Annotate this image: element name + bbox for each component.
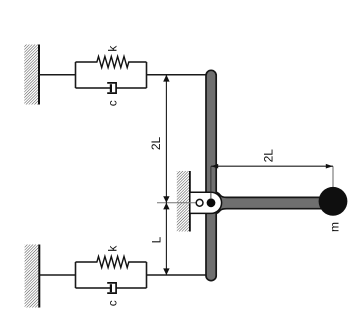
svg-text:c: c	[105, 100, 119, 106]
dimension line 2L (horizontal, pivot to mass)	[211, 164, 333, 198]
svg-text:k: k	[105, 45, 119, 52]
node: left rail of top parallel box	[75, 62, 77, 88]
pivot bracket (clevis from wall to pin)	[190, 192, 222, 213]
node O (pivot label ring)	[196, 199, 203, 206]
wire top box to vertical bar	[147, 74, 209, 76]
spring k (bottom)	[76, 256, 147, 267]
svg-text:2L: 2L	[261, 149, 275, 163]
wire wall W1 to spring-damper box (top)	[39, 74, 76, 76]
node: right rail of top parallel box	[146, 62, 148, 88]
wall W1 (top-left fixed support)	[24, 45, 39, 105]
wall W3 (pivot support wall)	[177, 171, 190, 232]
damper c (top)	[76, 83, 147, 93]
rigid T-bar (vertical bar + pivot boss + horizontal arm)	[206, 70, 335, 280]
svg-text:k: k	[105, 245, 119, 252]
spring k (top)	[76, 56, 147, 67]
node: left rail of bottom parallel box	[75, 262, 77, 288]
pivot pin	[207, 198, 216, 207]
dimension line L (vertical, pivot to bottom line)	[163, 203, 169, 275]
node: right rail of bottom parallel box	[146, 262, 148, 288]
wall W2 (bottom-left fixed support)	[25, 245, 40, 308]
svg-text:c: c	[105, 300, 119, 306]
svg-text:L: L	[150, 236, 164, 243]
svg-text:m: m	[328, 222, 342, 232]
mass m (ball at end of arm)	[319, 187, 348, 216]
wire wall W2 to spring-damper box (bottom)	[39, 274, 75, 276]
extension line at pivot level	[157, 202, 196, 204]
svg-text:2L: 2L	[149, 137, 163, 151]
wire bottom box to vertical bar	[147, 274, 209, 276]
damper c (bottom)	[76, 283, 147, 293]
dimension line 2L (vertical, top line to pivot)	[163, 75, 169, 203]
